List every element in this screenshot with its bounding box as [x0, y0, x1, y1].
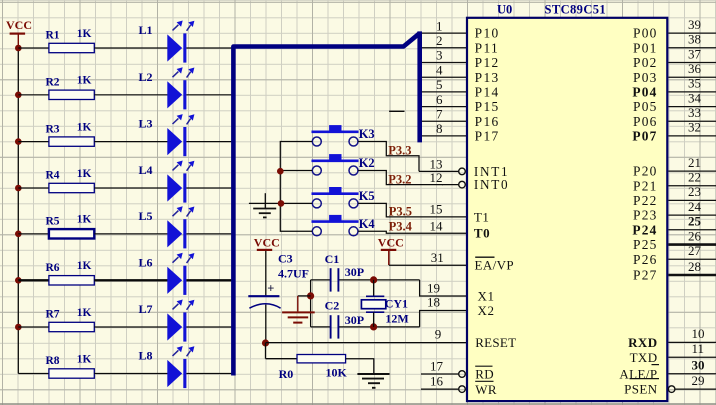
pin 33 P06 stub [668, 120, 716, 122]
wire VCC rail to R2 [18, 94, 49, 96]
pin 16 inversion circle [459, 386, 466, 393]
svg-text:RD: RD [475, 367, 494, 382]
wire C1-C2 ground link [310, 280, 312, 327]
pin 26 P25 stub [668, 243, 716, 246]
svg-text:R0: R0 [279, 367, 294, 381]
svg-text:8: 8 [436, 121, 443, 136]
svg-text:7: 7 [436, 106, 443, 121]
svg-text:1K: 1K [77, 168, 92, 180]
pin 35 P04 stub [668, 91, 716, 93]
svg-text:14: 14 [430, 218, 444, 233]
wire VCC to pin 31 [389, 264, 466, 266]
svg-text:P3.5: P3.5 [389, 204, 412, 218]
svg-text:P07: P07 [632, 129, 657, 144]
svg-text:38: 38 [688, 32, 701, 47]
svg-text:11: 11 [692, 341, 705, 356]
svg-text:37: 37 [688, 46, 702, 61]
svg-text:1: 1 [436, 18, 443, 33]
svg-text:P21: P21 [633, 178, 657, 193]
pin 37 P02 stub [668, 62, 716, 64]
pin 38 P01 stub [668, 47, 716, 49]
svg-text:10: 10 [692, 326, 705, 341]
sheet border bottom [0, 403, 716, 405]
svg-text:33: 33 [688, 105, 701, 120]
svg-text:35: 35 [688, 76, 701, 91]
svg-text:10K: 10K [326, 366, 348, 380]
svg-text:P01: P01 [633, 40, 657, 55]
node junction VCC rail row 2 [15, 92, 22, 99]
svg-text:32: 32 [688, 120, 701, 135]
svg-text:R1: R1 [46, 30, 60, 42]
svg-text:30P: 30P [345, 265, 364, 279]
svg-text:30P: 30P [345, 313, 364, 327]
svg-text:R7: R7 [46, 309, 60, 321]
pin 29 PSEN stub [675, 388, 716, 390]
wire VCC rail to R6 [18, 279, 49, 281]
svg-text:P3.3: P3.3 [388, 144, 411, 158]
svg-text:P06: P06 [633, 114, 657, 129]
pin 1 P10 stub [422, 32, 466, 34]
wire C3 bottom to reset node [265, 305, 267, 343]
svg-text:TXD: TXD [630, 350, 658, 365]
svg-text:36: 36 [688, 61, 702, 76]
overline ALE/P [652, 364, 660, 366]
wire button common top corner (K3) [280, 142, 312, 232]
svg-text:6: 6 [436, 92, 443, 107]
svg-text:R2: R2 [46, 77, 60, 89]
wire VCC rail to R1 [18, 47, 49, 49]
wire R6 to L6 [94, 279, 167, 281]
pin 12 INT0 stub [442, 184, 459, 186]
svg-text:22: 22 [688, 170, 701, 185]
pin 4 P13 stub [422, 76, 466, 78]
wire stray segment (near pin 6 row) [389, 110, 404, 112]
svg-text:4.7UF: 4.7UF [278, 267, 309, 281]
svg-text:1K: 1K [77, 75, 92, 87]
svg-text:VCC: VCC [6, 18, 32, 32]
pin 23 P22 stub [668, 199, 716, 201]
pin 34 P05 stub [668, 106, 716, 108]
svg-text:30: 30 [692, 358, 705, 373]
svg-text:P3.4: P3.4 [389, 219, 413, 233]
node junction crystal top [370, 276, 377, 283]
svg-text:P15: P15 [475, 99, 500, 114]
node junction VCC rail row 6 [15, 277, 22, 284]
pin 17 RD stub [421, 373, 459, 375]
svg-text:P13: P13 [475, 70, 500, 85]
svg-text:P12: P12 [475, 55, 500, 70]
svg-text:X1: X1 [478, 289, 495, 304]
pin 28 P27 stub [668, 274, 716, 277]
svg-text:L2: L2 [139, 70, 153, 84]
svg-text:L7: L7 [139, 302, 153, 316]
svg-text:K4: K4 [359, 217, 376, 231]
svg-text:1K: 1K [77, 214, 92, 226]
svg-text:P3.2: P3.2 [388, 172, 411, 186]
svg-text:18: 18 [427, 295, 440, 310]
capacitor C1 30P [330, 268, 332, 291]
pin 6 P15 stub [422, 106, 466, 108]
resistor R7 1K [49, 322, 94, 331]
svg-text:RESET: RESET [475, 335, 516, 350]
svg-text:15: 15 [430, 202, 443, 217]
svg-text:C1: C1 [325, 252, 340, 266]
svg-text:R5: R5 [46, 216, 60, 228]
wire reset node down to R0 [265, 343, 267, 359]
pin PSEN inversion circle [668, 386, 675, 393]
pin 22 P21 stub [668, 185, 716, 187]
pin 17 inversion circle [459, 371, 466, 378]
node junction ground link [307, 292, 314, 299]
svg-text:P00: P00 [633, 26, 657, 41]
svg-text:4: 4 [436, 62, 443, 77]
svg-text:C2: C2 [325, 299, 340, 313]
capacitor C2 30P [330, 315, 332, 338]
svg-text:R8: R8 [46, 355, 60, 367]
resistor R0 10K [297, 355, 346, 363]
svg-text:EA/VP: EA/VP [475, 258, 515, 273]
wire VCC rail to R5 [18, 233, 49, 235]
wire X1 corner to pin 19 [420, 280, 466, 296]
resistor R1 1K [49, 43, 94, 52]
wire L8 cathode to bus [186, 373, 231, 375]
resistor R2 1K [49, 90, 94, 99]
svg-text:28: 28 [688, 259, 701, 274]
wire X2 corner to pin 18 [420, 311, 466, 327]
pin 8 P17 stub [422, 135, 466, 137]
pin 13 INT1 stub [419, 170, 459, 172]
wire reset node to pin 9 [266, 342, 467, 344]
svg-text:+: + [267, 281, 274, 295]
resistor R6 1K [49, 276, 94, 285]
switch K2 (push button) [312, 160, 359, 163]
wire R8 to L8 [94, 373, 167, 375]
resistor R3 1K [49, 137, 94, 146]
LED L3 [167, 128, 182, 155]
wire L1 cathode to bus [186, 47, 231, 49]
svg-text:P17: P17 [475, 129, 500, 144]
LED L1 [167, 34, 182, 61]
svg-text:L5: L5 [139, 209, 153, 223]
wire net P3.3 (K3 to pin 13) [358, 142, 419, 172]
wire K2 left [280, 170, 312, 172]
pin 13 inversion circle [459, 168, 466, 175]
wire VCC to C3 [265, 251, 267, 296]
node junction VCC rail row 5 [15, 231, 22, 238]
svg-text:1K: 1K [77, 307, 92, 319]
wire R2 to L2 [94, 94, 167, 96]
pin 3 P12 stub [422, 62, 466, 64]
wire K5 left / ground spur [249, 202, 312, 204]
node junction VCC rail row 3 [15, 138, 22, 145]
wire crystal bottom lead [373, 312, 375, 327]
svg-text:WR: WR [475, 382, 497, 397]
wire X2 net lower right [339, 326, 420, 328]
svg-text:C3: C3 [278, 252, 293, 266]
pin 2 P11 stub [422, 47, 466, 49]
svg-text:5: 5 [436, 77, 443, 92]
svg-text:P23: P23 [633, 208, 657, 223]
wire L2 cathode to bus [186, 94, 231, 96]
wire to R0 [266, 358, 298, 360]
resistor R4 1K [49, 183, 94, 192]
svg-text:P27: P27 [633, 268, 657, 283]
crystal CY1 12M [366, 295, 384, 297]
wire R4 to L4 [94, 187, 167, 189]
svg-text:P26: P26 [633, 252, 657, 267]
svg-text:T0: T0 [474, 226, 490, 241]
wire X2 net lower [311, 326, 330, 328]
wire X1 net upper [311, 279, 330, 281]
svg-text:1K: 1K [77, 28, 92, 40]
svg-text:R6: R6 [46, 262, 60, 274]
svg-text:39: 39 [688, 17, 701, 32]
pin 21 P20 stub [668, 170, 716, 172]
wire crystal top lead [373, 280, 375, 296]
svg-text:L1: L1 [139, 23, 153, 37]
bus LED collector (thick) [233, 34, 419, 376]
ground (R0) [357, 373, 389, 375]
svg-text:P14: P14 [475, 85, 500, 100]
node junction button common at K2 [277, 168, 284, 175]
capacitor C3 4.7UF (electrolytic) [248, 295, 279, 297]
svg-text:RXD: RXD [628, 335, 657, 350]
svg-text:U0: U0 [497, 3, 512, 17]
overline RD [475, 365, 492, 367]
svg-text:17: 17 [430, 358, 444, 373]
svg-text:31: 31 [431, 250, 444, 265]
svg-text:34: 34 [688, 90, 702, 105]
svg-text:25: 25 [688, 214, 702, 229]
svg-text:P16: P16 [475, 114, 500, 129]
node junction reset [262, 339, 269, 346]
svg-text:21: 21 [688, 155, 701, 170]
svg-text:K5: K5 [359, 189, 375, 203]
svg-text:L4: L4 [139, 163, 153, 177]
wire VCC rail to R8 [18, 373, 49, 375]
pin 39 P00 stub [668, 32, 716, 34]
svg-text:R3: R3 [46, 123, 60, 135]
svg-text:P24: P24 [632, 222, 657, 237]
svg-text:VCC: VCC [378, 235, 404, 249]
wire L3 cathode to bus [186, 141, 231, 143]
pin 7 P16 stub [422, 120, 466, 122]
svg-text:STC89C51: STC89C51 [545, 3, 607, 17]
wire VCC rail vertical [17, 46, 19, 374]
resistor R5 1K [49, 229, 94, 238]
svg-text:9: 9 [435, 326, 442, 341]
wire VCC rail to R3 [18, 141, 49, 143]
svg-text:L3: L3 [139, 117, 153, 131]
pin 12 inversion circle [459, 181, 466, 188]
svg-text:P11: P11 [475, 40, 500, 55]
svg-text:P03: P03 [633, 70, 657, 85]
pin 5 P14 stub [422, 91, 466, 93]
wire L4 cathode to bus [186, 187, 231, 189]
svg-text:T1: T1 [474, 209, 490, 224]
switch K4 (push button) [312, 220, 359, 223]
svg-text:1K: 1K [77, 353, 92, 365]
svg-text:P02: P02 [633, 55, 657, 70]
svg-text:P22: P22 [633, 193, 657, 208]
pin 36 P03 stub [668, 76, 716, 78]
svg-text:CY1: CY1 [385, 297, 408, 311]
svg-text:VCC: VCC [254, 235, 280, 249]
svg-text:K3: K3 [359, 127, 375, 141]
svg-text:16: 16 [430, 373, 444, 388]
overline EA/VP [475, 256, 494, 258]
svg-text:L6: L6 [139, 255, 153, 269]
wire R1 to L1 [94, 47, 167, 49]
wire L6 cathode to bus [186, 279, 231, 281]
wire VCC rail to R7 [18, 326, 49, 328]
ground (buttons) [264, 193, 266, 208]
pin 10 RXD stub [668, 341, 716, 343]
svg-text:1K: 1K [77, 121, 92, 133]
pin 16 WR stub [421, 388, 459, 390]
svg-text:R4: R4 [46, 170, 60, 182]
wire net P3.2 (K2 to pin 12) [358, 171, 443, 185]
ground (crystal, maroon) [297, 296, 299, 312]
svg-text:12M: 12M [385, 311, 408, 325]
pin 32 P07 stub [668, 135, 716, 137]
svg-text:P20: P20 [633, 164, 657, 179]
svg-text:K2: K2 [359, 156, 375, 170]
svg-text:P04: P04 [632, 85, 657, 100]
svg-text:12: 12 [430, 170, 443, 185]
pin 24 P23 stub [668, 214, 716, 216]
wire L5 cathode to bus [186, 233, 231, 235]
svg-text:L8: L8 [139, 349, 153, 363]
wire R7 to L7 [94, 326, 167, 328]
switch K5 (push button) [312, 192, 359, 195]
LED L2 [167, 81, 182, 108]
overline WR [475, 380, 493, 382]
node junction VCC rail row 4 [15, 185, 22, 192]
pin 30 ALE/P stub [668, 373, 716, 375]
svg-text:26: 26 [688, 228, 702, 243]
svg-text:PSEN: PSEN [624, 382, 658, 397]
LED L7 [167, 313, 182, 340]
LED L4 [167, 174, 182, 201]
svg-text:P05: P05 [633, 99, 657, 114]
resistor R8 1K [49, 369, 94, 378]
wire net P3.4 (K4 to pin 14) [358, 231, 466, 233]
pin 27 P26 stub [668, 258, 716, 260]
overline PSEN [630, 378, 660, 380]
svg-text:19: 19 [427, 280, 440, 295]
wire to crystal ground [298, 295, 311, 297]
svg-text:P25: P25 [633, 237, 657, 252]
svg-text:P10: P10 [475, 26, 500, 41]
node junction button common at K5 [278, 200, 285, 207]
wire L7 cathode to bus [186, 326, 231, 328]
svg-text:1K: 1K [77, 260, 92, 272]
svg-text:29: 29 [692, 373, 705, 388]
svg-text:2: 2 [436, 33, 443, 48]
LED L6 [167, 267, 182, 294]
wire R3 to L3 [94, 141, 167, 143]
wire R5 to L5 [94, 233, 167, 235]
pin 11 TXD stub [668, 356, 716, 358]
node junction VCC rail row 1 [15, 45, 22, 52]
svg-text:27: 27 [688, 243, 702, 258]
node junction crystal bottom [370, 323, 377, 330]
pin 25 P24 stub [668, 229, 716, 231]
wire R0 to ground [346, 359, 374, 374]
wire VCC rail to R4 [18, 187, 49, 189]
svg-text:INT0: INT0 [474, 177, 509, 192]
LED L5 [167, 220, 182, 247]
LED L8 [167, 360, 182, 387]
wire net P3.5 (K5 to pin 15) [358, 203, 466, 217]
node junction VCC rail row 7 [15, 324, 22, 331]
svg-text:23: 23 [688, 184, 701, 199]
wire X1 net upper right [339, 279, 420, 281]
svg-text:3: 3 [436, 48, 443, 63]
switch K3 (push button) [312, 131, 359, 134]
svg-text:24: 24 [688, 199, 702, 214]
op-amp U0 STC89C51 body (IC box) [467, 18, 667, 401]
svg-text:X2: X2 [478, 303, 495, 318]
